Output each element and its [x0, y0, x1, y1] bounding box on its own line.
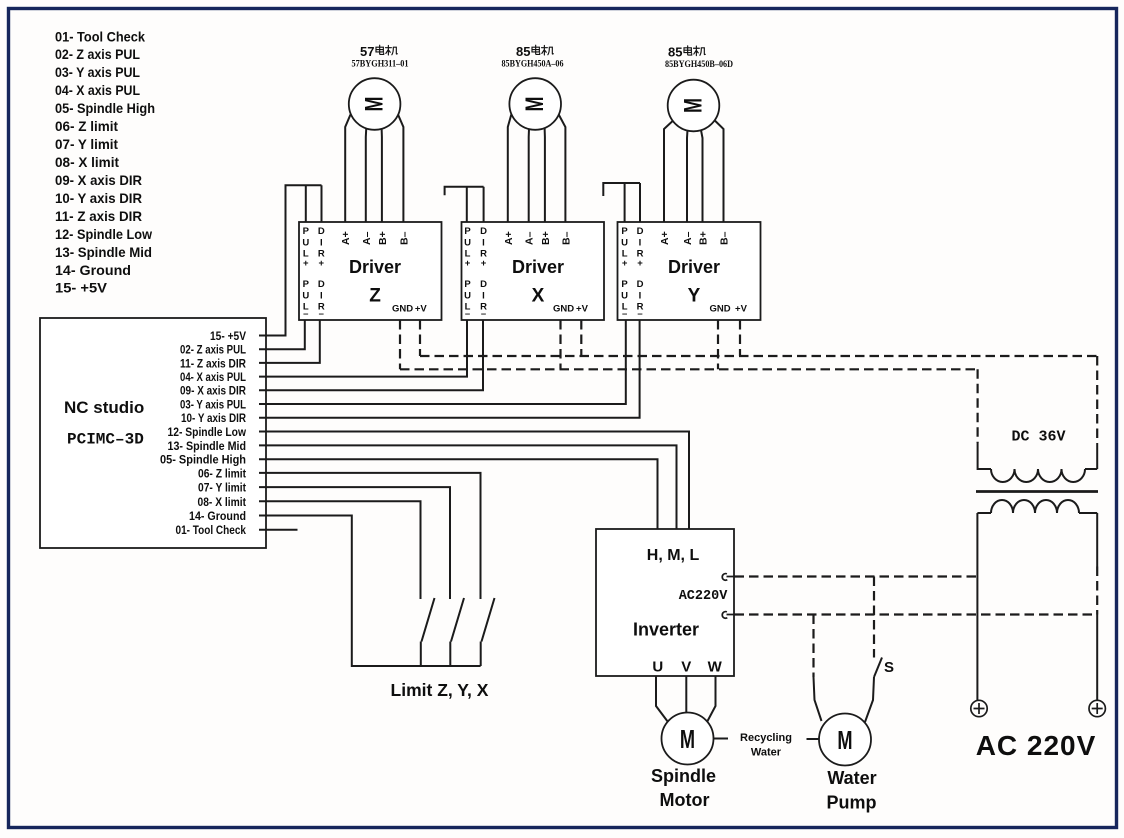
inverter AC terminal 2 — [722, 612, 743, 619]
motor M1 wires to driver Z — [345, 115, 350, 223]
wire NC 05 Spindle High to inverter H — [259, 459, 658, 529]
svg-text:M: M — [837, 726, 852, 755]
transformer T1 primary coil — [977, 500, 1097, 513]
svg-text:Driver: Driver — [349, 257, 401, 277]
driver Z +V dashed drop — [419, 320, 421, 356]
svg-text:03- Y axis PUL: 03- Y axis PUL — [55, 64, 140, 80]
svg-text:85BYGH450A–06: 85BYGH450A–06 — [502, 60, 564, 70]
svg-text:02- Z axis PUL: 02- Z axis PUL — [180, 345, 246, 357]
svg-text:Z: Z — [369, 286, 381, 307]
svg-text:B+: B+ — [698, 231, 710, 245]
motor M2 wires to driver X — [508, 115, 512, 223]
wire NC 12 Spindle Low to inverter L — [259, 432, 689, 530]
water pump circle — [819, 714, 871, 766]
svg-text:Y: Y — [688, 286, 701, 307]
controller U1 NC studio PCIMC-3D box — [40, 318, 266, 548]
wire +5V bracket driver X — [445, 187, 484, 222]
transformer core — [976, 490, 1098, 493]
wire NC 03 Y axis PUL to driver Y PUL- — [259, 320, 626, 404]
wire NC 09 X axis DIR to driver X DIR- — [259, 320, 483, 390]
svg-text:01- Tool Check: 01- Tool Check — [55, 28, 145, 44]
svg-text:05- Spindle High: 05- Spindle High — [55, 100, 155, 116]
driver Z box — [299, 222, 442, 320]
svg-text:AC 220V: AC 220V — [976, 730, 1097, 761]
spindle motor wires U V W — [656, 676, 668, 722]
dashed branch to water pump left — [812, 615, 814, 678]
wire NC 14 Ground to limit switch common bus — [259, 516, 481, 667]
svg-text:A+: A+ — [659, 231, 671, 245]
svg-text:W: W — [708, 659, 723, 676]
wire +5V bracket driver Y — [603, 183, 640, 222]
svg-text:GND: GND — [392, 304, 413, 315]
dashed AC line from inverter terminal 1 to transformer primary left — [735, 575, 978, 577]
driver X box — [462, 222, 605, 320]
svg-text:Driver: Driver — [512, 257, 564, 277]
svg-text:07- Y limit: 07- Y limit — [198, 483, 246, 495]
svg-text:A–: A– — [361, 231, 373, 245]
+V dashed bus to DC36V secondary right — [420, 356, 1097, 443]
svg-text:14- Ground: 14- Ground — [189, 511, 246, 523]
svg-text:A+: A+ — [503, 231, 515, 245]
svg-text:01- Tool Check: 01- Tool Check — [176, 525, 247, 537]
svg-text:A–: A– — [524, 231, 536, 245]
svg-text:A+: A+ — [340, 231, 352, 245]
svg-text:B–: B– — [719, 231, 731, 245]
limit switch SW1 (X) — [421, 598, 435, 666]
wire NC 10 Y axis DIR to driver Y DIR- — [259, 320, 640, 418]
svg-text:15- +5V: 15- +5V — [210, 331, 246, 343]
limit switch SW2 (Y) — [450, 598, 464, 666]
svg-text:57: 57 — [360, 44, 374, 59]
inverter AC terminal 1 — [722, 574, 743, 581]
svg-text:A–: A– — [682, 231, 694, 245]
svg-text:Inverter: Inverter — [633, 620, 699, 640]
svg-text:06- Z limit: 06- Z limit — [198, 468, 246, 480]
transformer T1 secondary (DC 36V) — [978, 443, 1098, 482]
inverter box — [596, 529, 734, 676]
driver Y +V dashed drop — [739, 320, 741, 356]
svg-text:12- Spindle Low: 12- Spindle Low — [168, 427, 247, 439]
svg-text:Spindle: Spindle — [651, 766, 716, 786]
AC plug terminal right — [1089, 700, 1105, 716]
svg-text:B–: B– — [560, 231, 572, 245]
svg-text:U: U — [652, 659, 663, 676]
svg-text:X: X — [532, 286, 545, 307]
motor M3 wires to driver Y — [664, 117, 678, 223]
svg-text:V: V — [681, 659, 691, 676]
wire NC 11 Z axis DIR to driver Z DIR- — [259, 320, 320, 363]
spindle motor right lead — [713, 738, 728, 740]
GND dashed bus to DC36V secondary left — [400, 369, 978, 443]
water pump left lead — [807, 738, 820, 740]
svg-text:07- Y limit: 07- Y limit — [55, 136, 118, 152]
dashed AC line from inverter terminal 2 to transformer primary right — [735, 613, 1095, 615]
svg-text:GND: GND — [553, 304, 574, 315]
svg-text:M: M — [680, 725, 695, 754]
svg-text:13- Spindle Mid: 13- Spindle Mid — [55, 244, 152, 260]
driver Z GND dashed drop — [399, 320, 401, 369]
svg-text:57BYGH311–01: 57BYGH311–01 — [352, 60, 409, 70]
svg-text:Recycling: Recycling — [740, 732, 792, 744]
svg-text:+V: +V — [415, 304, 428, 315]
transformer primary right lead — [1096, 513, 1098, 700]
svg-text:B–: B– — [398, 231, 410, 245]
svg-text:14- Ground: 14- Ground — [55, 262, 131, 278]
svg-text:M: M — [360, 97, 389, 112]
svg-text:M: M — [679, 98, 708, 113]
svg-text:15- +5V: 15- +5V — [55, 280, 108, 296]
wire NC 08 X limit to switch 1 — [259, 501, 421, 599]
svg-text:S: S — [884, 659, 894, 676]
wire NC 04 X axis PUL to driver X PUL- — [259, 320, 467, 377]
svg-text:M: M — [520, 97, 549, 112]
spindle motor circle — [662, 713, 714, 765]
driver Y box — [618, 222, 761, 320]
transformer primary left lead — [976, 513, 978, 700]
dashed branch to switch S — [873, 577, 875, 658]
wire NC 06 Z limit to switch 3 — [259, 473, 481, 599]
wire NC 01 Tool Check stub — [259, 529, 298, 531]
driver X GND dashed drop — [559, 320, 561, 369]
svg-text:B+: B+ — [377, 231, 389, 245]
svg-text:02- Z axis PUL: 02- Z axis PUL — [55, 46, 140, 62]
svg-text:04- X axis PUL: 04- X axis PUL — [55, 82, 140, 98]
svg-text:PCIMC–3D: PCIMC–3D — [67, 431, 144, 449]
svg-text:05- Spindle High: 05- Spindle High — [160, 455, 246, 467]
svg-text:09- X axis DIR: 09- X axis DIR — [180, 386, 247, 398]
svg-text:11- Z axis DIR: 11- Z axis DIR — [55, 208, 142, 224]
svg-text:85: 85 — [516, 44, 530, 59]
switch S blade — [874, 658, 882, 678]
svg-text:Motor: Motor — [660, 790, 710, 810]
svg-text:13- Spindle Mid: 13- Spindle Mid — [168, 441, 247, 453]
svg-text:10- Y axis DIR: 10- Y axis DIR — [55, 190, 142, 206]
wire NC 07 Y limit to switch 2 — [259, 487, 450, 599]
svg-text:06- Z limit: 06- Z limit — [55, 118, 118, 134]
driver Y GND dashed drop — [717, 320, 719, 369]
svg-text:H, M, L: H, M, L — [647, 547, 700, 564]
svg-text:08- X limit: 08- X limit — [198, 497, 247, 509]
svg-text:11- Z axis DIR: 11- Z axis DIR — [180, 358, 247, 370]
svg-text:04- X axis PUL: 04- X axis PUL — [180, 372, 246, 384]
svg-text:+V: +V — [576, 304, 589, 315]
wire +5V from NC pin 15 to driver Z PUL+/DIR+ bracket — [259, 185, 322, 335]
svg-text:B+: B+ — [540, 231, 552, 245]
wire NC 02 Z axis PUL to driver Z PUL- — [259, 320, 305, 349]
svg-text:Limit Z, Y, X: Limit Z, Y, X — [391, 680, 489, 700]
driver X +V dashed drop — [580, 320, 582, 356]
svg-text:09- X axis DIR: 09- X axis DIR — [55, 172, 142, 188]
svg-text:03- Y axis PUL: 03- Y axis PUL — [180, 400, 246, 412]
limit switch SW3 (Z) — [481, 598, 495, 666]
svg-text:+V: +V — [735, 304, 748, 315]
svg-text:Water: Water — [751, 747, 782, 759]
svg-text:10- Y axis DIR: 10- Y axis DIR — [181, 413, 247, 425]
AC plug terminal left — [971, 700, 987, 716]
svg-text:85: 85 — [668, 45, 682, 60]
svg-text:08- X limit: 08- X limit — [55, 154, 119, 170]
svg-text:DC 36V: DC 36V — [1011, 429, 1065, 446]
svg-text:85BYGH450B–06D: 85BYGH450B–06D — [665, 60, 733, 70]
svg-text:Pump: Pump — [826, 793, 876, 813]
wire NC 13 Spindle Mid to inverter M — [259, 445, 677, 529]
wire to water pump left lead — [814, 677, 822, 721]
svg-text:Water: Water — [827, 768, 876, 788]
svg-text:12- Spindle Low: 12- Spindle Low — [55, 226, 152, 242]
svg-text:NC studio: NC studio — [64, 398, 144, 417]
svg-text:AC220V: AC220V — [679, 589, 729, 604]
svg-text:Driver: Driver — [668, 257, 720, 277]
wire switch S to water pump — [865, 677, 874, 722]
svg-text:GND: GND — [709, 304, 730, 315]
